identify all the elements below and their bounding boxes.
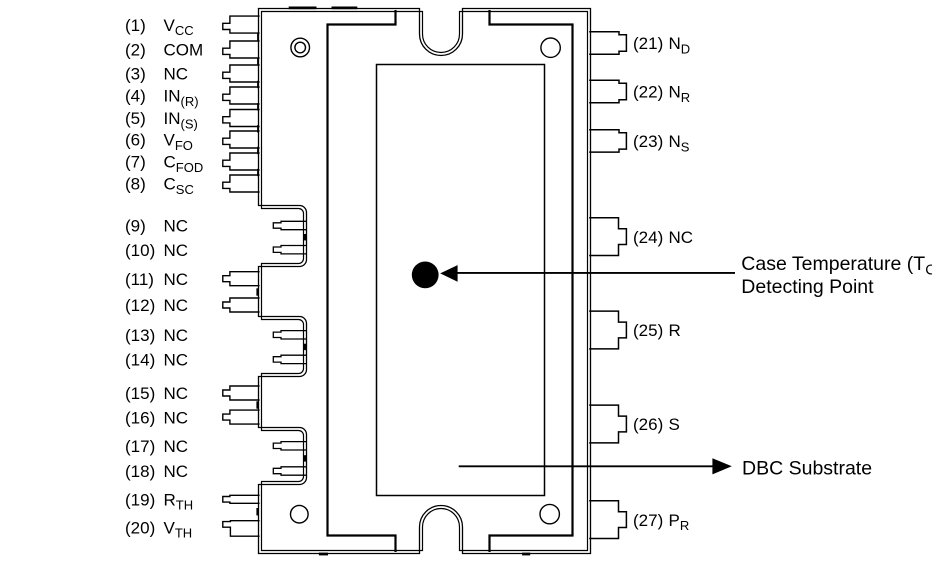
svg-text:(8): (8) bbox=[125, 175, 146, 194]
svg-text:IN(S): IN(S) bbox=[164, 109, 198, 131]
pin 4 bbox=[223, 87, 260, 104]
svg-text:PR: PR bbox=[669, 511, 690, 533]
pin 10 bbox=[273, 246, 307, 254]
svg-text:(19): (19) bbox=[125, 491, 155, 510]
svg-text:(3): (3) bbox=[125, 65, 146, 84]
svg-text:(26): (26) bbox=[633, 415, 663, 434]
svg-text:(25): (25) bbox=[633, 321, 663, 340]
svg-text:NC: NC bbox=[164, 326, 189, 345]
svg-text:R: R bbox=[669, 321, 681, 340]
svg-text:(24): (24) bbox=[633, 228, 663, 247]
pin 14 bbox=[273, 355, 307, 363]
pin 22 bbox=[589, 80, 626, 102]
pin 24 bbox=[589, 218, 626, 256]
svg-text:(12): (12) bbox=[125, 296, 155, 315]
svg-text:(1): (1) bbox=[125, 16, 146, 35]
svg-text:NC: NC bbox=[164, 241, 189, 260]
pin 18 bbox=[273, 467, 307, 475]
svg-text:(2): (2) bbox=[125, 41, 146, 60]
svg-text:NC: NC bbox=[164, 351, 189, 370]
svg-text:S: S bbox=[669, 415, 680, 434]
svg-text:NC: NC bbox=[164, 65, 189, 84]
svg-text:(15): (15) bbox=[125, 384, 155, 403]
svg-text:(16): (16) bbox=[125, 408, 155, 427]
resin gate marks on recess edges bbox=[304, 234, 306, 240]
svg-text:VFO: VFO bbox=[164, 131, 193, 153]
svg-text:Detecting Point: Detecting Point bbox=[741, 276, 874, 298]
resin gate marks on left edge, pins 1-8 bbox=[257, 33, 259, 40]
pin 6 bbox=[223, 131, 260, 148]
svg-text:(6): (6) bbox=[125, 131, 146, 150]
svg-text:(5): (5) bbox=[125, 109, 146, 128]
mounting hole bottom-right bbox=[540, 504, 559, 523]
pin 26 bbox=[589, 405, 626, 443]
package inner outline (double line) bbox=[262, 12, 588, 551]
svg-text:RTH: RTH bbox=[164, 491, 194, 513]
svg-text:NC: NC bbox=[164, 384, 189, 403]
pin 15 bbox=[223, 386, 260, 400]
svg-text:NC: NC bbox=[164, 217, 189, 236]
pin 16 bbox=[223, 410, 260, 424]
case lid outline right bbox=[490, 10, 573, 552]
pin 7 bbox=[223, 153, 260, 170]
pin 12 bbox=[223, 298, 260, 312]
svg-text:NS: NS bbox=[669, 132, 690, 154]
mounting hole top-right bbox=[541, 38, 560, 57]
case temperature detecting point (dot) bbox=[412, 262, 439, 289]
svg-text:(13): (13) bbox=[125, 326, 155, 345]
svg-text:(17): (17) bbox=[125, 437, 155, 456]
svg-text:IN(R): IN(R) bbox=[164, 87, 199, 109]
svg-text:(11): (11) bbox=[125, 270, 154, 289]
svg-text:DBC Substrate: DBC Substrate bbox=[742, 458, 872, 480]
svg-text:NC: NC bbox=[164, 270, 189, 289]
pin 1 bbox=[223, 16, 260, 33]
svg-text:NC: NC bbox=[164, 296, 189, 315]
svg-text:(9): (9) bbox=[125, 217, 146, 236]
mounting hole bottom-left bbox=[291, 505, 309, 523]
pin 19 bbox=[223, 495, 260, 503]
pin 5 bbox=[223, 110, 260, 127]
pin 13 bbox=[273, 331, 307, 339]
svg-text:VTH: VTH bbox=[164, 519, 193, 541]
pin 8 bbox=[223, 175, 260, 192]
svg-text:CSC: CSC bbox=[164, 175, 194, 197]
svg-text:Case Temperature (TC): Case Temperature (TC) bbox=[741, 253, 932, 279]
svg-text:(7): (7) bbox=[125, 153, 146, 172]
svg-text:NR: NR bbox=[669, 83, 691, 105]
svg-text:NC: NC bbox=[164, 462, 189, 481]
svg-text:(21): (21) bbox=[633, 34, 663, 53]
arrow to DBC substrate bbox=[459, 465, 713, 467]
svg-text:(14): (14) bbox=[125, 351, 155, 370]
svg-text:(27): (27) bbox=[633, 511, 663, 530]
svg-text:(4): (4) bbox=[125, 87, 146, 106]
pin 3 bbox=[223, 65, 260, 82]
pin 25 bbox=[589, 311, 626, 349]
svg-text:NC: NC bbox=[669, 228, 694, 247]
pin 20 bbox=[223, 521, 260, 537]
mold marks top edge bbox=[289, 7, 317, 10]
case lid outline left bbox=[328, 10, 396, 552]
pin 21 bbox=[589, 32, 626, 54]
svg-text:NC: NC bbox=[164, 408, 189, 427]
svg-text:CFOD: CFOD bbox=[164, 153, 204, 175]
svg-text:VCC: VCC bbox=[164, 16, 194, 38]
svg-text:(20): (20) bbox=[125, 519, 155, 538]
mounting hole top-left (double circle) bbox=[291, 38, 310, 57]
svg-text:(22): (22) bbox=[633, 83, 663, 102]
package outer outline bbox=[259, 9, 591, 554]
pin 9 bbox=[273, 221, 307, 229]
pin 17 bbox=[273, 442, 307, 450]
arrow to detecting point bbox=[457, 272, 735, 274]
svg-text:ND: ND bbox=[669, 34, 691, 56]
mold marks bottom edge bbox=[319, 553, 328, 556]
pin 27 bbox=[589, 501, 626, 539]
svg-text:(23): (23) bbox=[633, 132, 663, 151]
resin gate marks on left edge, pins 11-20 bbox=[256, 288, 258, 295]
svg-text:(18): (18) bbox=[125, 462, 155, 481]
svg-text:(10): (10) bbox=[125, 241, 155, 260]
pin 23 bbox=[589, 130, 626, 152]
svg-text:NC: NC bbox=[164, 437, 189, 456]
pin 2 bbox=[223, 41, 260, 58]
DBC substrate rectangle bbox=[377, 65, 545, 496]
svg-text:COM: COM bbox=[164, 41, 204, 60]
pin 11 bbox=[223, 272, 260, 286]
